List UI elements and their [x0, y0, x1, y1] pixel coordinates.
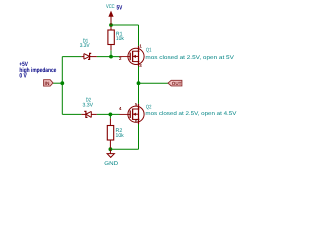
- svg-text:mos closed at 2.5V, open at 5V: mos closed at 2.5V, open at 5V: [145, 55, 234, 61]
- svg-text:Q2: Q2: [146, 105, 152, 111]
- svg-text:OUT: OUT: [172, 81, 182, 86]
- svg-text:5V: 5V: [117, 5, 123, 12]
- svg-text:3.3V: 3.3V: [80, 43, 90, 49]
- svg-text:VCC: VCC: [106, 4, 115, 10]
- svg-text:mos closed at 2.5V, open at 4.: mos closed at 2.5V, open at 4.5V: [145, 111, 236, 117]
- svg-text:Q1: Q1: [146, 48, 152, 54]
- svg-text:10k: 10k: [116, 133, 124, 139]
- svg-text:0 V: 0 V: [19, 73, 27, 80]
- svg-text:10k: 10k: [116, 36, 124, 42]
- svg-text:GND: GND: [104, 161, 118, 167]
- svg-text:3.3V: 3.3V: [83, 103, 94, 109]
- svg-text:IN: IN: [45, 81, 50, 87]
